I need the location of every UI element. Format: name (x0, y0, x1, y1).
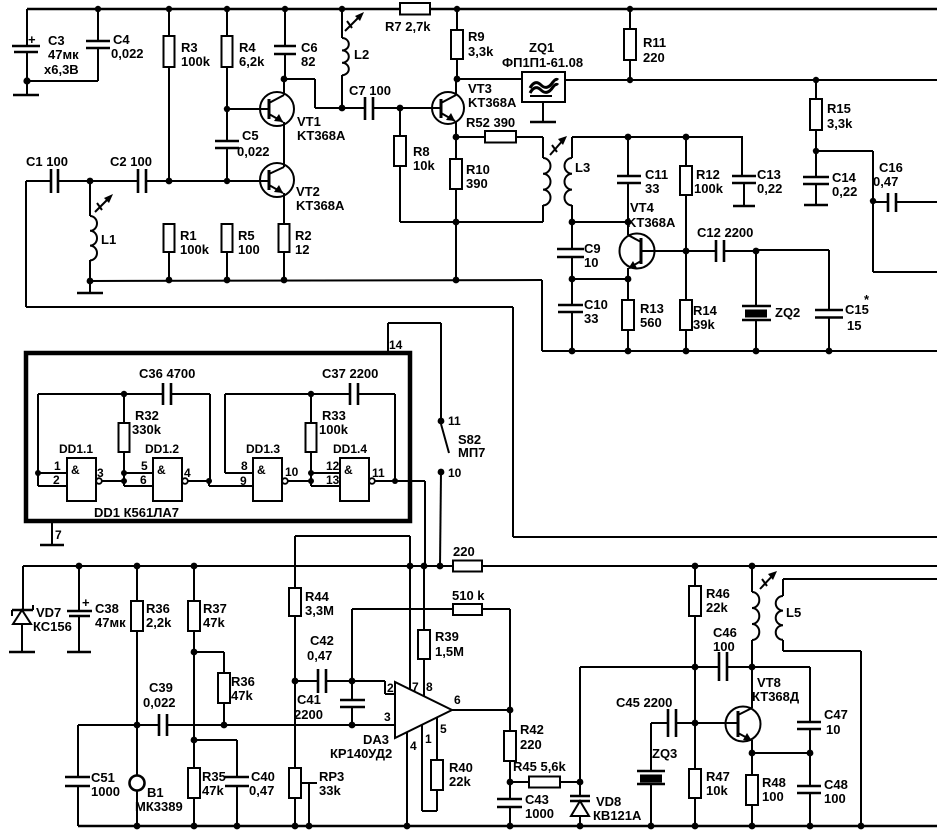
pin 1 (35, 459, 67, 476)
wire L5 secondary bottom (783, 651, 864, 829)
svg-text:R2: R2 (295, 228, 312, 243)
transistor VT8 (726, 667, 800, 753)
svg-text:R32: R32 (135, 408, 159, 423)
svg-text:R1: R1 (180, 228, 197, 243)
resistor R47 (689, 723, 730, 829)
op-amp power pin 7 (410, 566, 419, 694)
pin 6 (124, 473, 153, 487)
svg-text:R48: R48 (762, 775, 786, 790)
svg-text:DD1.3: DD1.3 (246, 442, 280, 456)
svg-text:C48: C48 (824, 777, 848, 792)
op-amp pin 2 input (352, 681, 395, 695)
svg-text:B1: B1 (147, 785, 164, 800)
svg-text:VT4: VT4 (630, 200, 655, 215)
capacitor C4 (86, 6, 144, 81)
capacitor C36 (139, 366, 195, 405)
svg-text:R37: R37 (203, 601, 227, 616)
svg-text:VT8: VT8 (757, 675, 781, 690)
resistor R12 (680, 134, 724, 251)
svg-text:ZQ1: ZQ1 (529, 40, 554, 55)
capacitor C3 electrolytic (12, 9, 79, 81)
svg-text:1: 1 (425, 732, 432, 746)
svg-text:3,3k: 3,3k (827, 116, 853, 131)
svg-text:L2: L2 (354, 47, 369, 62)
svg-text:8: 8 (426, 680, 433, 694)
transistor VT1 (227, 79, 346, 167)
svg-text:C9: C9 (584, 241, 601, 256)
svg-text:R36: R36 (146, 601, 170, 616)
svg-text:R33: R33 (322, 408, 346, 423)
svg-text:10: 10 (285, 465, 299, 479)
node C12 / ZQ2 (753, 248, 829, 310)
pin 7 ground (40, 523, 64, 545)
switch S82 (438, 414, 486, 566)
pin 13 (311, 473, 340, 487)
svg-text:100: 100 (713, 639, 735, 654)
svg-text:1000: 1000 (525, 806, 554, 821)
node C42 right / 510k / C41 (349, 678, 356, 685)
capacitor C10 (558, 279, 608, 354)
gate DD1.4 (333, 442, 375, 501)
capacitor C51 (65, 725, 120, 826)
svg-text:R3: R3 (181, 40, 198, 55)
resistor R39 and pin 8 (418, 563, 464, 696)
svg-text:220: 220 (520, 737, 542, 752)
svg-text:L5: L5 (786, 605, 801, 620)
svg-text:6: 6 (454, 693, 461, 707)
node R37 bottom / C40 (191, 737, 237, 777)
zener VD7 (9, 605, 72, 652)
pin 10 output (285, 465, 311, 481)
wire ground rail y=280 (90, 280, 542, 351)
resistor R48 (746, 753, 786, 829)
capacitor C47 (797, 707, 848, 753)
svg-text:C3: C3 (48, 33, 65, 48)
svg-text:510 k: 510 k (452, 588, 485, 603)
node C2/R3/R1 (166, 178, 173, 185)
svg-text:0,47: 0,47 (249, 783, 274, 798)
svg-text:C45 2200: C45 2200 (616, 695, 672, 710)
gate DD1.2 (145, 442, 188, 501)
svg-text:390: 390 (466, 176, 488, 191)
wire long input line y=307 (26, 307, 937, 537)
wire pin11 exit to rail (395, 481, 425, 566)
node VT8 collector (749, 664, 810, 722)
svg-text:7: 7 (55, 528, 62, 542)
resistor R13 (622, 279, 664, 354)
capacitor C46 (713, 625, 752, 681)
pin 9 (240, 474, 247, 488)
capacitor C11 (617, 134, 668, 222)
wire osc2 top y=394 (225, 394, 395, 481)
svg-text:100: 100 (762, 789, 784, 804)
resistor R15 (810, 77, 853, 151)
capacitor C37 (322, 366, 378, 405)
resistor 220 on rail (453, 544, 482, 572)
node R33 bottom (308, 470, 314, 484)
svg-text:10k: 10k (413, 158, 435, 173)
svg-text:0,022: 0,022 (237, 144, 270, 159)
svg-text:5: 5 (141, 459, 148, 473)
svg-text:8: 8 (241, 459, 248, 473)
svg-text:C5: C5 (242, 128, 259, 143)
capacitor C15 (815, 292, 870, 354)
svg-text:R45 5,6k: R45 5,6k (513, 759, 567, 774)
svg-text:L3: L3 (575, 160, 590, 175)
svg-text:100: 100 (238, 242, 260, 257)
svg-text:C41: C41 (297, 692, 321, 707)
svg-text:13: 13 (326, 473, 340, 487)
wire supply rail y=566 (23, 566, 937, 610)
svg-text:100k: 100k (319, 422, 349, 437)
svg-text:C37 2200: C37 2200 (322, 366, 378, 381)
pin 8 (225, 459, 253, 473)
svg-text:22k: 22k (449, 774, 471, 789)
crystal ZQ3 (637, 723, 677, 829)
resistor R45 horizontal (510, 759, 583, 788)
resistor R9 (451, 6, 494, 79)
svg-text:R4: R4 (239, 40, 256, 55)
capacitor C9 (557, 222, 601, 279)
capacitor C16 (870, 160, 937, 212)
svg-text:R10: R10 (466, 162, 490, 177)
svg-text:ZQ2: ZQ2 (775, 305, 800, 320)
svg-text:R40: R40 (449, 760, 473, 775)
transformer L3 variable (543, 136, 590, 222)
svg-text:R7 2,7k: R7 2,7k (385, 19, 431, 34)
svg-text:C1 100: C1 100 (26, 154, 68, 169)
pin 4 output (184, 466, 212, 484)
wire y=80 ZQ1 to right edge (565, 79, 937, 81)
svg-text:220: 220 (453, 544, 475, 559)
svg-text:x6,3B: x6,3B (44, 62, 79, 77)
wire bottom ground rail y=826 (78, 825, 937, 827)
node S82 to rail (437, 563, 444, 570)
node R32 bottom (121, 470, 127, 484)
svg-text:КТ368Д: КТ368Д (752, 689, 800, 704)
svg-text:R8: R8 (413, 144, 430, 159)
svg-text:R12: R12 (696, 167, 720, 182)
svg-text:C39: C39 (149, 680, 173, 695)
svg-text:R13: R13 (640, 301, 664, 316)
svg-text:82: 82 (301, 54, 315, 69)
svg-text:&: & (344, 463, 353, 477)
svg-text:3: 3 (97, 466, 104, 480)
svg-text:C13: C13 (757, 167, 781, 182)
ground under L1 (77, 278, 103, 293)
svg-text:C40: C40 (251, 769, 275, 784)
resistor R33 (306, 391, 349, 486)
wire mic line y=725 (78, 722, 395, 729)
svg-text:2: 2 (387, 681, 394, 695)
svg-text:VT2: VT2 (296, 184, 320, 199)
IC DD1 box (26, 353, 410, 521)
svg-text:C36 4700: C36 4700 (139, 366, 195, 381)
resistor R1 (164, 224, 210, 283)
pin 12 (311, 459, 340, 473)
transistor VT4 (620, 200, 677, 279)
capacitor C45 (616, 695, 726, 737)
svg-text:0,22: 0,22 (757, 181, 782, 196)
resistor R46 (689, 563, 730, 723)
svg-text:9: 9 (240, 474, 247, 488)
resistor R14 (680, 248, 718, 355)
svg-text:R15: R15 (827, 101, 851, 116)
svg-text:R46: R46 (706, 586, 730, 601)
svg-text:C14: C14 (832, 170, 857, 185)
svg-text:10k: 10k (706, 783, 728, 798)
wire output y=272 (873, 201, 937, 272)
wire L5 secondary top to edge (783, 578, 937, 580)
transistor VT2 (260, 163, 345, 224)
wire top supply rail y=9 (27, 8, 937, 10)
capacitor C6 (274, 6, 318, 79)
svg-text:R9: R9 (468, 29, 485, 44)
svg-text:C46: C46 (713, 625, 737, 640)
capacitor C7 (349, 83, 441, 120)
svg-text:C38: C38 (95, 601, 119, 616)
resistor R44 (289, 536, 334, 681)
svg-text:C4: C4 (113, 32, 130, 47)
svg-text:100k: 100k (180, 242, 210, 257)
svg-text:DA3: DA3 (363, 732, 389, 747)
svg-text:KT368A: KT368A (296, 198, 345, 213)
resistor R36b 47k (218, 673, 255, 728)
resistor R42 (504, 710, 544, 785)
svg-text:6,2k: 6,2k (239, 54, 265, 69)
svg-text:11: 11 (448, 414, 461, 428)
capacitor C39 (143, 680, 176, 736)
crystal ZQ2 (742, 251, 800, 354)
svg-text:C16: C16 (879, 160, 903, 175)
gate DD1.1 (59, 442, 102, 501)
svg-text:C10: C10 (584, 297, 608, 312)
svg-text:КВ121А: КВ121А (593, 808, 642, 823)
svg-text:33: 33 (584, 311, 598, 326)
op-amp pin 5 / resistor R40 (431, 717, 473, 811)
svg-text:47мк: 47мк (95, 615, 126, 630)
op-amp pin 3 label (384, 710, 391, 724)
svg-text:2200: 2200 (294, 707, 323, 722)
svg-text:KT368A: KT368A (468, 95, 517, 110)
svg-text:KT368A: KT368A (297, 128, 346, 143)
capacitor C41 (294, 681, 365, 728)
inductor L2 variable (339, 6, 369, 108)
pin 2 (38, 473, 67, 487)
svg-text:R42: R42 (520, 722, 544, 737)
node VT3 collector / R9 (454, 76, 522, 83)
svg-text:10: 10 (448, 466, 462, 480)
svg-text:C12 2200: C12 2200 (697, 225, 753, 240)
op-amp DA3 triangle (330, 682, 452, 761)
svg-text:R36: R36 (231, 674, 255, 689)
svg-text:L1: L1 (101, 232, 116, 247)
svg-text:R44: R44 (305, 589, 330, 604)
svg-text:R14: R14 (693, 303, 718, 318)
resistor R52 horizontal (456, 115, 543, 143)
svg-text:100k: 100k (694, 181, 724, 196)
resistor R36 (131, 563, 172, 725)
svg-text:15: 15 (847, 318, 861, 333)
svg-text:DD1.1: DD1.1 (59, 442, 93, 456)
capacitor C14 (803, 151, 857, 205)
svg-text:47k: 47k (203, 615, 225, 630)
svg-text:RP3: RP3 (319, 769, 344, 784)
capacitor C40 (225, 769, 275, 829)
transistor VT3 (432, 79, 517, 137)
varicap VD8 (570, 782, 642, 829)
resistor R2 (279, 224, 312, 283)
microphone B1 (130, 725, 183, 829)
svg-text:10: 10 (826, 722, 840, 737)
svg-text:DD1 К561ЛА7: DD1 К561ЛА7 (94, 505, 179, 520)
svg-text:22k: 22k (706, 600, 728, 615)
svg-text:330k: 330k (132, 422, 162, 437)
svg-text:560: 560 (640, 315, 662, 330)
svg-text:2: 2 (53, 473, 60, 487)
wire mid ground rail y=351 (542, 350, 937, 352)
svg-text:33k: 33k (319, 783, 341, 798)
svg-text:0,47: 0,47 (873, 174, 898, 189)
svg-text:VT3: VT3 (468, 81, 492, 96)
svg-text:220: 220 (643, 50, 665, 65)
node R15 bottom (813, 148, 873, 201)
svg-text:1000: 1000 (91, 784, 120, 799)
svg-text:ФП1П1-61.08: ФП1П1-61.08 (502, 55, 583, 70)
svg-text:0,47: 0,47 (307, 648, 332, 663)
svg-text:R47: R47 (706, 769, 730, 784)
svg-text:100k: 100k (181, 54, 211, 69)
node C3/C4 bottom junction (23, 77, 98, 84)
resistor R7 horizontal on rail (385, 3, 431, 34)
svg-text:0,022: 0,022 (143, 695, 176, 710)
resistor R35 (188, 768, 226, 829)
resistor 510k feedback (352, 588, 510, 710)
pin 3 output (97, 466, 124, 481)
svg-text:6: 6 (140, 473, 147, 487)
svg-text:R11: R11 (643, 35, 666, 50)
svg-text:C7 100: C7 100 (349, 83, 391, 98)
op-amp pin 1 (422, 725, 437, 811)
svg-text:C43: C43 (525, 792, 549, 807)
svg-text:1,5M: 1,5M (435, 644, 464, 659)
svg-text:3,3k: 3,3k (468, 44, 494, 59)
node VT1 collector / C6 (281, 76, 365, 108)
ground under C3 (13, 81, 39, 95)
wire R44 top to rail (295, 536, 413, 569)
svg-text:4: 4 (184, 466, 191, 480)
svg-text:47мк: 47мк (48, 47, 79, 62)
svg-text:+: + (82, 595, 90, 610)
svg-text:&: & (71, 463, 80, 477)
svg-text:DD1.4: DD1.4 (333, 442, 367, 456)
pin 14 wire (388, 323, 441, 420)
svg-text:47k: 47k (202, 783, 224, 798)
svg-text:3: 3 (384, 710, 391, 724)
svg-text:R52 390: R52 390 (466, 115, 515, 130)
svg-text:МП7: МП7 (458, 445, 485, 460)
wire L3 top to VT4 net y=137 (572, 136, 742, 138)
capacitor C5 (215, 106, 270, 184)
svg-text:&: & (157, 463, 166, 477)
ground under ZQ1 (530, 102, 556, 122)
op-amp pin 4 (404, 732, 417, 829)
svg-text:12: 12 (295, 242, 309, 257)
resistor R3 (164, 6, 211, 181)
inductor L1 variable (87, 178, 117, 281)
filter ZQ1 (502, 40, 583, 102)
resistor R5 (222, 224, 260, 283)
svg-text:10: 10 (584, 255, 598, 270)
potentiometer RP3 (289, 681, 344, 829)
svg-text:МК3389: МК3389 (135, 799, 183, 814)
svg-text:KT368A: KT368A (627, 215, 676, 230)
node VT4 emitter (625, 276, 632, 283)
node VT8 emitter (749, 750, 814, 757)
pin 5 (124, 459, 153, 473)
wire VD8 node up to C46 (580, 667, 719, 782)
wire emitter ground link y=222 (400, 219, 543, 284)
svg-text:VD8: VD8 (596, 794, 621, 809)
capacitor C1 (26, 154, 138, 193)
gate DD1.3 (246, 442, 288, 501)
svg-text:C11: C11 (645, 167, 668, 182)
svg-text:5: 5 (440, 722, 447, 736)
capacitor C2 (110, 154, 269, 193)
node R46 / C46 (692, 664, 699, 671)
node VT3 emitter (453, 134, 460, 141)
svg-text:КС156: КС156 (33, 619, 72, 634)
svg-text:+: + (28, 32, 36, 47)
node C7 / R8 / VT3 base (397, 105, 404, 112)
wire osc1 top y=394 (38, 394, 210, 481)
svg-text:&: & (257, 463, 266, 477)
svg-text:0,022: 0,022 (111, 46, 144, 61)
transformer L5 variable (749, 563, 802, 667)
resistor R4 (222, 6, 266, 109)
resistor R8 (394, 108, 435, 222)
svg-text:C51: C51 (91, 770, 115, 785)
capacitor C48 (797, 753, 848, 829)
svg-text:12: 12 (326, 459, 340, 473)
svg-text:2,2k: 2,2k (146, 615, 172, 630)
svg-text:R5: R5 (238, 228, 255, 243)
resistor R10 (450, 137, 490, 222)
svg-text:4: 4 (410, 739, 417, 753)
wire input left vertical (25, 181, 27, 307)
capacitor C42 (292, 633, 352, 693)
pin 11 output (372, 466, 398, 484)
svg-text:39k: 39k (693, 317, 715, 332)
svg-text:1: 1 (54, 459, 61, 473)
svg-text:0,22: 0,22 (832, 184, 857, 199)
resistor R37 (188, 563, 227, 768)
svg-text:C2 100: C2 100 (110, 154, 152, 169)
svg-text:R35: R35 (202, 769, 226, 784)
svg-text:11: 11 (372, 466, 385, 480)
node L2 bottom (339, 105, 346, 112)
capacitor C38 electrolytic (67, 563, 126, 652)
resistor R11 (624, 6, 666, 83)
capacitor C13 (732, 136, 782, 206)
node L3 right bottom / C9 (569, 219, 628, 226)
capacitor C43 (497, 782, 554, 829)
svg-text:R39: R39 (435, 629, 459, 644)
svg-text:14: 14 (389, 338, 403, 352)
node VT4 base (625, 219, 632, 226)
svg-text:100: 100 (824, 791, 846, 806)
node C9/C10 (569, 276, 628, 283)
